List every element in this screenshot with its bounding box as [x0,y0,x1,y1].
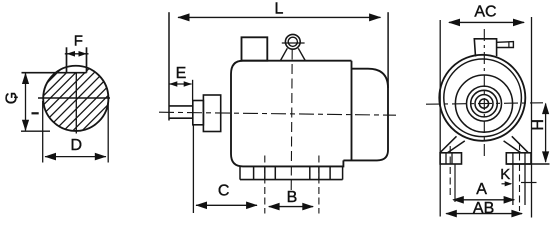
A arrow left [452,196,464,204]
end shield circle [455,75,512,132]
dimension G line [25,73,27,131]
right pad hole edge 1 / K reference [512,153,514,205]
left A extension [454,164,456,202]
conduit cap line [508,42,510,48]
circle vertical centerline [75,73,77,134]
left AB/AC extension (long) [439,20,441,217]
dimension B line [269,206,313,208]
AB arrow right [511,210,523,218]
foot hole centerline left [264,156,266,214]
C arrow left [195,202,207,210]
L arrow left [177,13,189,21]
B arrow right [302,203,314,211]
right AB/AC extension (long) [531,17,533,218]
eyebolt ring inner [288,37,297,46]
svg-text:AB: AB [473,200,494,217]
K arrow [505,181,513,186]
stray dash [32,112,39,114]
H arrow up [542,103,549,115]
hub circle 1 [467,86,502,121]
dimension AC line [449,21,524,23]
E arrow left [169,81,177,86]
left pad hole edge 1 [445,153,447,164]
eyebolt leg left [280,48,287,61]
right leg outer slant [512,136,529,153]
G bottom extension line [21,130,50,132]
dimension F line [65,53,89,55]
right foot pad [506,153,531,164]
foot hole centerline right [318,156,320,214]
svg-text:D: D [71,137,83,154]
svg-text:L: L [275,1,284,18]
left pad hole edge 2 [451,153,453,164]
foot left box [240,166,275,179]
K tail line right [521,182,537,184]
E right extension line [192,80,194,101]
conduit tube [497,42,514,48]
hatching [43,66,108,131]
eyebolt ring outer [285,34,300,49]
shaft circle [43,66,108,131]
outer frame circle [439,55,525,141]
left foot pad [440,153,461,164]
centerline dash left [14,96,18,98]
svg-text:K: K [500,166,510,183]
shaft top line [169,105,193,107]
L right extension line [387,12,389,88]
svg-text:AC: AC [474,3,496,20]
left hole centerline dashed [449,146,451,196]
dimension E line [170,83,192,85]
AC arrow left [448,19,460,27]
right leg inner slant [504,141,521,153]
feet bottom line [240,179,343,181]
C arrow right [246,202,258,210]
dimension H line [545,104,547,163]
F arrow right [79,51,87,57]
dimension A line [453,199,514,201]
svg-text:A: A [476,181,487,198]
terminal box (front) [474,39,496,57]
left leg inner slant [448,141,465,153]
pad bottom line extended / H lower reference [506,163,549,165]
fan cowl [343,69,388,161]
keyway side right / F extension [86,47,88,72]
shaft circle [479,99,488,108]
eyebolt pin line [282,42,305,44]
shaft shoulder step [193,101,204,125]
right hole centerline dashed [519,143,521,211]
shaft bottom line [169,117,193,119]
C extension line [192,125,194,213]
foot right box [310,166,343,179]
A arrow right [504,196,516,204]
vertical centerline [483,29,485,160]
F arrow left [67,51,75,57]
foot hole centerline right solid part [318,166,320,179]
svg-text:F: F [74,33,83,50]
K leader line [502,183,512,185]
svg-text:B: B [287,189,298,206]
svg-text:C: C [218,183,230,200]
motor body outline [231,61,352,167]
D extension left [42,101,44,163]
right pad hole edge 2 [524,153,526,205]
H arrow down [542,151,549,163]
svg-text:E: E [176,65,187,82]
horizontal centerline [426,103,543,104]
hub circle 2 [471,90,498,117]
AB arrow left [445,210,457,218]
dimension C line [196,204,257,206]
svg-text:H: H [530,119,547,131]
dimension D line [45,156,106,158]
terminal box (side) [242,37,268,60]
keyway side left / F extension [66,47,68,72]
svg-text:G: G [4,92,21,104]
G arrow up [22,73,29,85]
AC arrow right [513,19,525,27]
vertical centerline [291,50,292,193]
keyway bottom line / G top extension [22,72,87,74]
hub circle 3 [475,95,493,113]
D arrow left [44,153,56,161]
left leg outer slant [440,136,457,153]
circle horizontal centerline [38,97,110,99]
dimension AB line [446,213,522,215]
B arrow left [268,203,280,211]
E arrow right [184,81,192,86]
dimension L line [178,16,381,18]
bearing boss [203,95,220,132]
G arrow down [22,120,29,132]
foot hole centerline left solid part [264,166,266,179]
D extension right [107,101,109,163]
L arrow right [369,13,381,21]
shaft end face / L-E left extension line [168,12,170,120]
D arrow right [95,153,107,161]
horizontal centerline [159,112,396,115]
frame inner circle [444,59,522,137]
eyebolt leg right [298,48,305,61]
